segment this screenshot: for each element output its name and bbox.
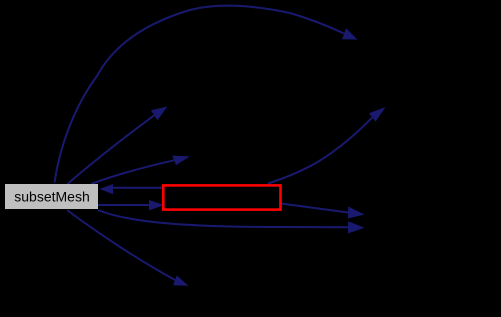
arrowhead E: [149, 200, 164, 211]
arrowhead H: [348, 221, 365, 233]
node subsetMesh: [5, 184, 98, 209]
edge H: subsetMesh -> right node (low curve): [98, 210, 349, 227]
edge F: red node -> upper-right node: [268, 118, 372, 184]
svg-text:subsetMesh: subsetMesh: [14, 189, 89, 205]
arrowhead G: [348, 207, 365, 219]
edge I: subsetMesh -> bottom node: [67, 210, 175, 280]
edge D: red node -> subsetMesh: [113, 187, 162, 189]
arrowhead D: [100, 184, 114, 194]
edge E: subsetMesh -> red node: [98, 204, 149, 206]
arrowhead I: [173, 275, 188, 285]
edge G: red node -> right node: [281, 204, 349, 213]
arrowhead A: [342, 28, 358, 39]
edge C: subsetMesh -> mid upper node: [91, 160, 174, 184]
arrowhead C: [172, 156, 190, 166]
edge A: subsetMesh -> top-right node (big arc): [55, 6, 345, 183]
edge B: subsetMesh -> upper node: [68, 115, 155, 184]
arrowhead B: [151, 107, 168, 121]
node current (red): [163, 185, 280, 209]
arrowhead F: [369, 107, 386, 122]
